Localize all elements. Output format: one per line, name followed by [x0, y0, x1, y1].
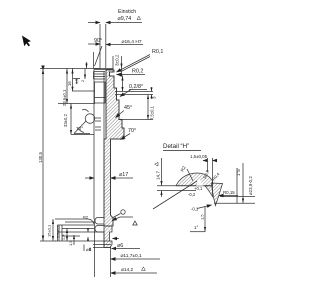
- right ext lines mid: [115, 92, 153, 120]
- svg-text:R0,1: R0,1: [152, 49, 163, 55]
- small dim 2 left: [85, 62, 87, 69]
- ext line down: [110, 248, 112, 278]
- dim 7,5: [147, 95, 149, 120]
- svg-text:⌀9,74: ⌀9,74: [118, 16, 132, 22]
- wall right edge lines: [110, 70, 125, 226]
- svg-text:90°: 90°: [94, 38, 102, 44]
- detail: groove lines: [157, 185, 209, 187]
- svg-text:⌀14,2: ⌀14,2: [121, 267, 134, 273]
- flange top line with fillet: [55, 219, 94, 224]
- svg-text:1,5: 1,5: [200, 214, 205, 220]
- small leader mid: [113, 238, 120, 240]
- bore groove block 1: [94, 72, 106, 80]
- leader R0,1: [117, 55, 151, 73]
- detail R2 leader: [187, 169, 193, 181]
- svg-text:2: 2: [81, 80, 85, 82]
- left outer edge: [93, 69, 95, 220]
- svg-text:-0,1: -0,1: [191, 207, 199, 212]
- dim 130,5: [42, 69, 44, 242]
- ext line y103.5: [58, 103, 95, 105]
- svg-text:16: 16: [67, 81, 72, 86]
- svg-text:70°: 70°: [128, 128, 136, 134]
- dim d17: [85, 177, 133, 179]
- svg-text:R0,2: R0,2: [132, 69, 143, 75]
- angle 70 left: [74, 121, 90, 134]
- dim 3 right: [150, 87, 152, 99]
- dim 33pm02: [70, 104, 72, 135]
- svg-text:45°: 45°: [124, 105, 132, 111]
- detail line right: [220, 196, 255, 198]
- top dim Einstich: [88, 23, 142, 69]
- neck barrel profiles: [95, 218, 104, 225]
- detail dim 14,7: [160, 158, 162, 197]
- detail wedge hatched: [212, 183, 223, 206]
- svg-text:⌀11,7±0,1: ⌀11,7±0,1: [121, 253, 143, 259]
- svg-text:70°: 70°: [76, 126, 83, 132]
- cursor: [22, 34, 32, 47]
- flange bottom lines: [55, 241, 111, 248]
- svg-text:⌀23,9-0,2: ⌀23,9-0,2: [248, 176, 253, 195]
- detail top dim 1,5: [203, 158, 217, 184]
- svg-text:⌀16,4 H7: ⌀16,4 H7: [122, 39, 142, 45]
- bore line y134: [71, 134, 94, 136]
- dim d14,2: [111, 272, 157, 274]
- svg-text:1,5±0,05: 1,5±0,05: [190, 154, 208, 159]
- small bottom ticks: [84, 245, 90, 252]
- leader 70 right: [121, 134, 131, 140]
- detail cap hatched: [176, 173, 213, 186]
- detail bottom dim: [190, 207, 206, 232]
- flange right hatched wall: [104, 226, 112, 248]
- svg-text:⌀8: ⌀8: [86, 247, 92, 252]
- svg-text:⌀6: ⌀6: [117, 243, 123, 249]
- svg-text:15±0,1: 15±0,1: [47, 224, 52, 237]
- svg-text:Detail “H”: Detail “H”: [163, 143, 189, 150]
- detail leader slant: [153, 181, 197, 209]
- main view: top face thick: [95, 68, 114, 70]
- svg-text:3±0,2: 3±0,2: [115, 54, 120, 66]
- dim 23,6: [66, 69, 68, 104]
- small dim 1,5: [73, 79, 80, 85]
- bore ticks: [95, 118, 101, 130]
- hatched wall column: [104, 70, 124, 226]
- svg-text:2,4: 2,4: [61, 234, 66, 240]
- svg-text:33±0,2: 33±0,2: [63, 114, 68, 127]
- svg-text:130,5: 130,5: [38, 151, 43, 163]
- svg-text:+0,1: +0,1: [194, 186, 203, 191]
- svg-text:⌀17: ⌀17: [119, 172, 128, 178]
- svg-text:Einstich: Einstich: [118, 9, 136, 15]
- dim d6: [112, 248, 141, 250]
- wall left edge line: [105, 70, 107, 139]
- small dim 3pm02 top right: [121, 76, 123, 92]
- bore block 2: [95, 82, 106, 103]
- balloon H: [85, 114, 95, 124]
- dim 90deg: [88, 44, 102, 69]
- svg-text:23,6±0,1: 23,6±0,1: [62, 89, 67, 106]
- flange left profile: [58, 219, 105, 277]
- svg-text:1,5: 1,5: [68, 240, 73, 246]
- svg-text:R2: R2: [180, 165, 187, 173]
- flange right callout tri: [112, 217, 133, 221]
- leader 45: [116, 111, 125, 118]
- wedge tip leader: [197, 205, 212, 209]
- svg-text:-0,2: -0,2: [188, 192, 196, 197]
- detail dim d23,9: [214, 163, 255, 203]
- leader 0,1/8: [120, 90, 131, 97]
- left ext line top: [40, 68, 100, 70]
- detail dim 1deg5: [236, 168, 238, 203]
- leader R0,2: [117, 74, 146, 76]
- dim 16: [71, 69, 73, 92]
- svg-text:R2: R2: [83, 215, 89, 220]
- svg-text:1°5': 1°5': [236, 168, 241, 176]
- svg-text:1°: 1°: [194, 225, 198, 230]
- ext line bottom: [40, 240, 56, 242]
- dim 16,4: [106, 45, 143, 77]
- svg-text:1,5: 1,5: [75, 79, 79, 84]
- svg-text:R0,15: R0,15: [223, 190, 235, 195]
- ext line y91: [72, 90, 94, 92]
- svg-text:7,5±0,1: 7,5±0,1: [150, 105, 155, 120]
- dim d11,7: [111, 258, 160, 260]
- flange small dims left: [52, 219, 54, 241]
- small dim 3: [84, 69, 86, 80]
- svg-text:3: 3: [152, 96, 157, 99]
- circled symbol callout: [121, 210, 125, 214]
- bore right wall: [103, 72, 105, 220]
- svg-text:0,2/8°: 0,2/8°: [129, 84, 143, 90]
- svg-text:14,7: 14,7: [156, 171, 161, 180]
- detail R0,15 leader: [219, 195, 238, 197]
- detail right dip: [205, 186, 213, 197]
